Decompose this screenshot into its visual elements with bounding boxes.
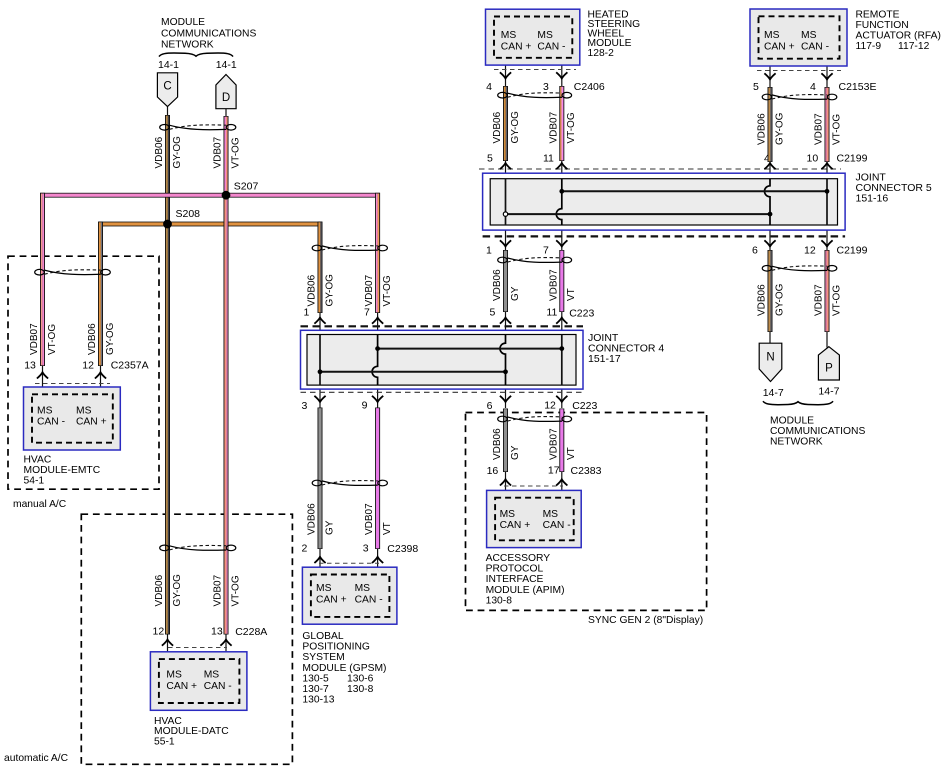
svg-text:C2199: C2199 (837, 244, 868, 256)
svg-text:P: P (825, 363, 833, 375)
svg-text:C2406: C2406 (574, 81, 605, 93)
svg-text:VT: VT (382, 522, 393, 535)
svg-text:13: 13 (211, 626, 223, 638)
svg-text:54-1: 54-1 (24, 475, 45, 486)
svg-text:MS: MS (537, 30, 553, 41)
svg-text:C: C (163, 80, 171, 92)
svg-text:CAN +: CAN + (501, 41, 532, 52)
svg-text:12: 12 (544, 400, 556, 412)
svg-text:SYNC GEN 2 (8"Display): SYNC GEN 2 (8"Display) (588, 615, 703, 626)
svg-text:CAN -: CAN - (355, 594, 383, 605)
svg-text:3: 3 (543, 81, 549, 93)
svg-text:9: 9 (362, 400, 368, 412)
svg-text:11: 11 (543, 153, 554, 165)
svg-text:MS: MS (37, 405, 53, 416)
svg-text:MS: MS (316, 583, 332, 594)
svg-text:3: 3 (363, 542, 369, 554)
svg-text:VDB07: VDB07 (364, 274, 375, 306)
svg-text:MS: MS (76, 405, 92, 416)
svg-text:1: 1 (486, 244, 492, 256)
svg-text:HVAC: HVAC (24, 454, 52, 465)
svg-text:16: 16 (487, 465, 499, 477)
svg-text:14-7: 14-7 (763, 387, 784, 399)
svg-text:CAN +: CAN + (316, 594, 347, 605)
svg-text:1: 1 (304, 307, 310, 319)
svg-text:VDB07: VDB07 (364, 503, 375, 535)
svg-text:VT-OG: VT-OG (47, 324, 58, 355)
svg-text:REMOTE: REMOTE (856, 9, 900, 20)
svg-text:7: 7 (364, 307, 370, 319)
svg-text:ACTUATOR (RFA): ACTUATOR (RFA) (856, 31, 941, 42)
svg-text:VDB07: VDB07 (213, 136, 224, 168)
svg-text:CAN -: CAN - (543, 520, 571, 531)
svg-text:VDB07: VDB07 (548, 111, 559, 143)
svg-text:PROTOCOL: PROTOCOL (486, 564, 544, 575)
svg-text:MS: MS (204, 670, 220, 681)
svg-text:CAN +: CAN + (764, 41, 795, 52)
svg-text:MS: MS (801, 30, 817, 41)
svg-text:VDB07: VDB07 (213, 574, 224, 606)
svg-text:manual A/C: manual A/C (13, 499, 67, 510)
svg-text:MS: MS (764, 30, 780, 41)
svg-text:130-7: 130-7 (302, 684, 329, 695)
svg-text:GY-OG: GY-OG (510, 111, 521, 144)
svg-text:130-8: 130-8 (347, 684, 374, 695)
svg-text:VDB06: VDB06 (757, 284, 768, 316)
svg-text:VT: VT (566, 288, 577, 301)
svg-text:VDB06: VDB06 (492, 269, 503, 301)
svg-text:12: 12 (153, 626, 165, 638)
svg-text:GLOBAL: GLOBAL (302, 631, 343, 642)
svg-text:VT: VT (566, 447, 577, 460)
svg-text:151-16: 151-16 (856, 193, 889, 205)
svg-text:5: 5 (753, 81, 759, 93)
svg-text:GY-OG: GY-OG (324, 274, 335, 307)
svg-text:C2383: C2383 (571, 465, 602, 477)
svg-text:GY: GY (324, 520, 335, 535)
svg-text:VDB06: VDB06 (154, 574, 165, 606)
svg-text:130-6: 130-6 (347, 673, 374, 684)
svg-text:CAN -: CAN - (37, 417, 65, 428)
svg-text:VT-OG: VT-OG (230, 575, 241, 606)
svg-text:N: N (766, 352, 774, 364)
svg-text:C223: C223 (569, 307, 594, 319)
svg-text:VDB06: VDB06 (492, 428, 503, 460)
svg-text:POSITIONING: POSITIONING (302, 642, 370, 653)
svg-text:FUNCTION: FUNCTION (856, 20, 909, 31)
svg-text:GY: GY (510, 445, 521, 460)
svg-text:NETWORK: NETWORK (770, 436, 823, 447)
svg-text:GY: GY (510, 286, 521, 301)
svg-text:12: 12 (82, 360, 94, 372)
svg-text:GY-OG: GY-OG (172, 574, 183, 607)
svg-text:4: 4 (486, 81, 492, 93)
svg-text:VDB06: VDB06 (307, 503, 318, 535)
svg-text:MODULE (APIM): MODULE (APIM) (486, 585, 565, 596)
svg-text:ACCESSORY: ACCESSORY (486, 553, 551, 564)
svg-text:MODULE (GPSM): MODULE (GPSM) (302, 663, 386, 674)
svg-text:130-13: 130-13 (302, 695, 334, 706)
svg-text:VDB07: VDB07 (814, 113, 825, 145)
svg-text:5: 5 (487, 153, 493, 165)
svg-text:MODULE-DATC: MODULE-DATC (154, 726, 229, 737)
svg-text:CAN -: CAN - (537, 41, 565, 52)
svg-text:GY-OG: GY-OG (774, 283, 785, 316)
svg-text:6: 6 (487, 400, 493, 412)
svg-text:VT-OG: VT-OG (230, 137, 241, 168)
svg-text:VDB06: VDB06 (757, 113, 768, 145)
svg-text:4: 4 (810, 81, 816, 93)
svg-text:GY-OG: GY-OG (774, 112, 785, 145)
svg-text:S208: S208 (176, 208, 201, 220)
svg-text:VDB06: VDB06 (154, 136, 165, 168)
svg-text:3: 3 (302, 400, 308, 412)
svg-text:13: 13 (24, 360, 36, 372)
svg-text:C2153E: C2153E (839, 81, 877, 93)
svg-text:CAN +: CAN + (166, 681, 197, 692)
svg-text:MS: MS (166, 670, 182, 681)
svg-text:MS: MS (355, 583, 371, 594)
svg-text:MS: MS (543, 509, 559, 520)
svg-text:VDB06: VDB06 (492, 111, 503, 143)
svg-text:SYSTEM: SYSTEM (302, 652, 344, 663)
svg-text:VDB06: VDB06 (87, 323, 98, 355)
svg-text:VT-OG: VT-OG (831, 114, 842, 145)
svg-text:S207: S207 (234, 181, 259, 193)
svg-text:INTERFACE: INTERFACE (486, 574, 544, 585)
svg-text:5: 5 (490, 307, 496, 319)
svg-text:VDB07: VDB07 (814, 284, 825, 316)
svg-text:MODULE-EMTC: MODULE-EMTC (24, 465, 101, 476)
svg-text:151-17: 151-17 (588, 353, 621, 365)
svg-text:17: 17 (548, 465, 560, 477)
svg-text:130-5: 130-5 (302, 673, 329, 684)
svg-text:CAN -: CAN - (204, 681, 232, 692)
svg-text:MS: MS (501, 30, 517, 41)
svg-text:C2357A: C2357A (111, 360, 149, 372)
svg-text:12: 12 (804, 244, 816, 256)
svg-text:C223: C223 (572, 400, 597, 412)
svg-text:GY-OG: GY-OG (105, 322, 116, 355)
svg-text:VT-OG: VT-OG (566, 112, 577, 143)
svg-text:128-2: 128-2 (588, 48, 615, 59)
svg-text:CAN -: CAN - (801, 41, 829, 52)
svg-text:NETWORK: NETWORK (161, 40, 214, 51)
svg-text:117-12: 117-12 (898, 41, 930, 52)
svg-text:HVAC: HVAC (154, 716, 182, 727)
svg-text:14-7: 14-7 (818, 386, 839, 398)
svg-text:2: 2 (302, 542, 308, 554)
svg-text:C2199: C2199 (837, 153, 868, 165)
svg-text:VT-OG: VT-OG (382, 275, 393, 306)
svg-text:CAN +: CAN + (500, 520, 531, 531)
svg-text:VDB07: VDB07 (548, 269, 559, 301)
svg-text:117-9: 117-9 (856, 41, 882, 52)
svg-text:VDB06: VDB06 (307, 274, 318, 306)
svg-text:C2398: C2398 (387, 543, 418, 555)
svg-text:10: 10 (807, 153, 819, 165)
svg-text:GY-OG: GY-OG (172, 136, 183, 169)
svg-text:130-8: 130-8 (486, 595, 513, 606)
svg-text:11: 11 (546, 307, 557, 319)
svg-text:MS: MS (500, 509, 516, 520)
svg-text:VT-OG: VT-OG (831, 285, 842, 316)
svg-text:55-1: 55-1 (154, 737, 175, 748)
svg-text:VDB07: VDB07 (548, 428, 559, 460)
svg-text:D: D (222, 92, 230, 104)
svg-text:14-1: 14-1 (158, 59, 179, 71)
svg-text:6: 6 (752, 244, 758, 256)
svg-text:C228A: C228A (235, 626, 267, 638)
svg-text:14-1: 14-1 (216, 59, 237, 71)
svg-text:7: 7 (543, 244, 549, 256)
svg-text:COMMUNICATIONS: COMMUNICATIONS (161, 28, 256, 39)
svg-text:VDB07: VDB07 (29, 323, 40, 355)
svg-text:automatic A/C: automatic A/C (4, 753, 69, 764)
svg-text:CAN +: CAN + (76, 417, 107, 428)
svg-text:MODULE: MODULE (161, 17, 205, 28)
